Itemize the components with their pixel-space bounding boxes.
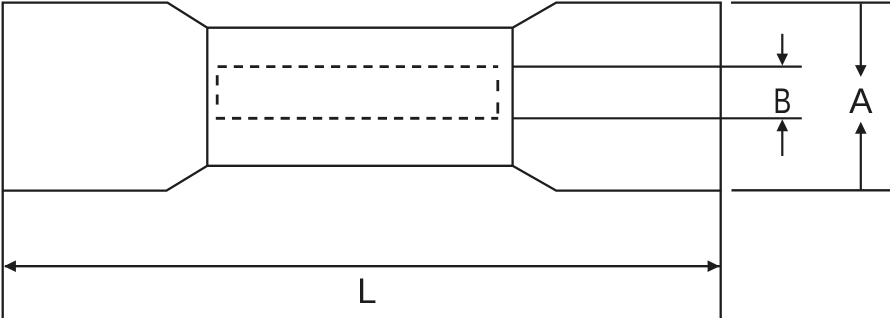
butt splice connector outline: [3, 3, 721, 191]
extension line right (L): [720, 191, 722, 318]
sleeve junction line left: [206, 28, 208, 166]
extension line left (L): [2, 191, 4, 318]
hidden barrel dashed bottom: [216, 117, 498, 120]
dimension line L: [5, 265, 720, 267]
hidden barrel dashed left: [216, 75, 219, 104]
L arrowhead right: [708, 260, 720, 272]
wire hole line top: [513, 65, 802, 67]
sleeve junction line right: [511, 28, 513, 166]
dimension A lower arrow: [855, 122, 867, 190]
dimension B upper arrow: [777, 34, 789, 66]
L arrowhead left: [4, 260, 16, 272]
svg-text:L: L: [357, 272, 376, 311]
dimension A upper arrow: [855, 4, 867, 77]
hidden barrel dashed top: [218, 65, 499, 68]
hidden barrel dashed right: [496, 80, 499, 114]
svg-text:B: B: [773, 82, 791, 121]
extension line bottom (A): [732, 189, 890, 191]
dimension B lower arrow: [777, 119, 789, 156]
wire hole line bottom: [513, 117, 802, 119]
svg-text:A: A: [849, 82, 873, 121]
extension line top (A): [731, 1, 890, 3]
